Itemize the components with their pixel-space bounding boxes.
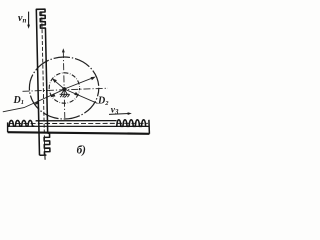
rack 3 pitch line <box>9 122 148 124</box>
fixed bearing support <box>60 90 70 98</box>
node O: axle knot <box>62 87 66 91</box>
left end edge <box>7 122 9 132</box>
left teeth <box>8 120 35 126</box>
right end edge <box>148 120 151 134</box>
svg-text:б): б) <box>77 144 87 156</box>
svg-text:v3: v3 <box>111 106 119 116</box>
vertical centerline <box>63 51 65 118</box>
rack 1 pitch line tail <box>44 156 46 160</box>
vertical rack bottom teeth <box>39 133 50 155</box>
rack 1 pitch line <box>42 11 45 154</box>
tooth root line <box>8 125 149 127</box>
gear pitch circle D2 (inner) <box>49 73 79 103</box>
gear pitch circle D1 (outer) <box>29 57 98 119</box>
rack 1 (vertical) <box>36 9 50 160</box>
radius arrow NE (to outer circle) <box>64 77 96 89</box>
horizontal centerline <box>23 88 109 91</box>
leader line for D2 (center to label, arrowhead at inner circle) <box>64 89 97 103</box>
bottom edge <box>8 132 150 134</box>
radius arrow NW (to inner circle) <box>52 78 64 89</box>
velocity arrow v_n (rack 1) <box>27 12 30 29</box>
tooth tip line (middle section) <box>36 120 117 122</box>
vertical rack outline with top teeth <box>36 9 48 155</box>
rack 3 (horizontal) <box>8 120 150 134</box>
leader line for D1 (center to label, arrowheads at circles) <box>3 89 65 112</box>
velocity arrow v3 (rack 3) <box>109 112 132 115</box>
right teeth <box>117 120 146 127</box>
centerline top arrowhead <box>62 48 65 52</box>
